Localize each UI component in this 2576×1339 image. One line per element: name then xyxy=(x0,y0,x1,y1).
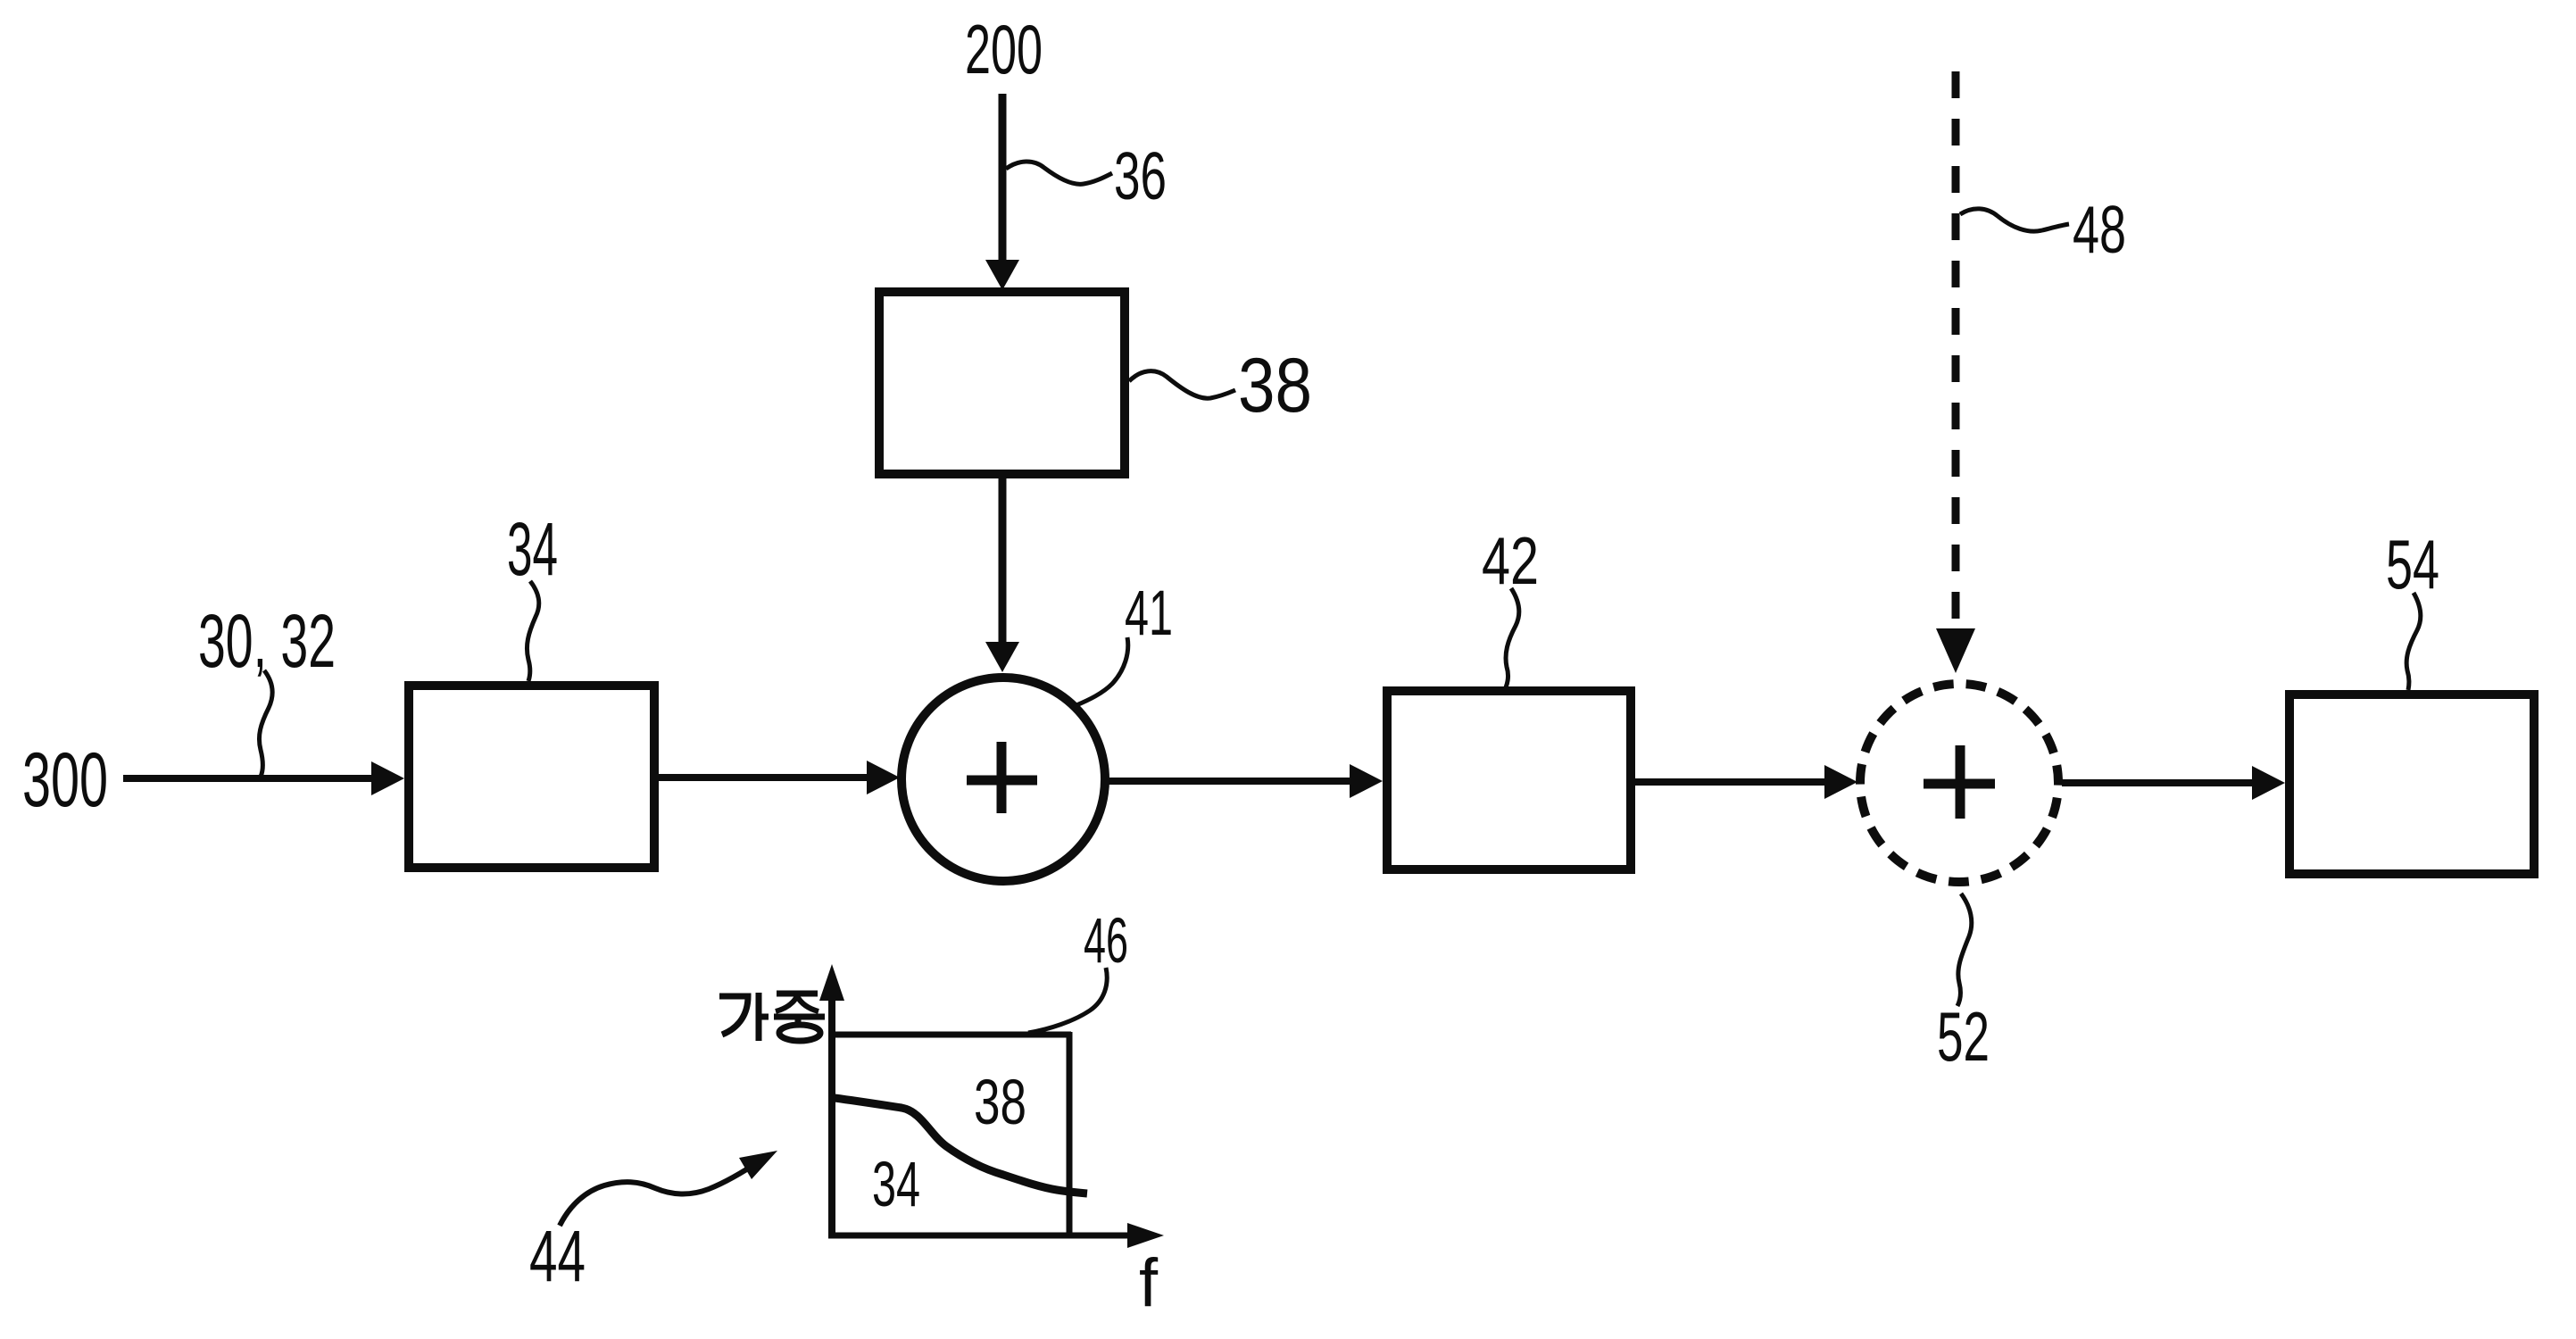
wire block 38 to adder 41 xyxy=(999,478,1007,644)
arrowhead into block 54 xyxy=(2252,766,2285,800)
svg-text:48: 48 xyxy=(2073,192,2126,267)
wire adder 52 to block 54 xyxy=(2062,779,2256,786)
dashed wire 48 xyxy=(1952,71,1960,627)
arrowhead into block 42 xyxy=(1350,764,1383,798)
arrowhead into block 34 xyxy=(371,761,404,795)
leader 46 xyxy=(1028,968,1107,1033)
svg-text:300: 300 xyxy=(22,737,108,823)
graph x-axis xyxy=(828,1233,1130,1239)
leader arrow 44 xyxy=(560,1160,760,1226)
svg-text:200: 200 xyxy=(965,10,1043,88)
wire block 34 to adder 41 xyxy=(659,774,871,781)
arrowhead of leader 44 xyxy=(739,1151,777,1179)
wire input 300 to block 34 xyxy=(123,775,375,782)
graph weighting curve xyxy=(835,1098,1087,1193)
svg-text:41: 41 xyxy=(1125,578,1173,649)
svg-text:f: f xyxy=(1139,1245,1159,1321)
block 38 xyxy=(879,292,1125,474)
block 42 xyxy=(1387,691,1631,869)
svg-text:52: 52 xyxy=(1937,997,1990,1076)
leader 34 xyxy=(527,581,538,681)
arrowhead of dashed wire into adder 52 xyxy=(1936,628,1975,673)
block 34 xyxy=(409,686,654,868)
plus sign of adder 41 xyxy=(967,776,1037,786)
svg-text:54: 54 xyxy=(2386,525,2439,603)
wire 200 to block 38 xyxy=(999,94,1007,262)
plus sign of adder 52 xyxy=(1924,779,1995,789)
wire block 42 to adder 52 xyxy=(1635,778,1828,786)
svg-text:38: 38 xyxy=(1238,343,1312,428)
svg-text:34: 34 xyxy=(872,1150,920,1220)
leader 52 xyxy=(1957,894,1972,1006)
adder 52 dashed circle xyxy=(1860,684,2058,882)
leader 42 xyxy=(1506,588,1519,687)
svg-text:36: 36 xyxy=(1114,138,1167,213)
svg-text:44: 44 xyxy=(529,1216,586,1297)
leader 48 xyxy=(1960,209,2069,231)
wire adder 41 to block 42 xyxy=(1109,778,1353,785)
leader 30, 32 xyxy=(259,670,272,777)
graph y-axis arrowhead xyxy=(819,964,844,1001)
arrowhead into adder 52 xyxy=(1824,765,1857,799)
graph box top line 46 xyxy=(832,1032,1071,1038)
arrowhead into block 38 xyxy=(985,260,1019,290)
korean label weighting (jung) xyxy=(774,994,825,1041)
adder 41 circle xyxy=(902,678,1105,881)
svg-text:34: 34 xyxy=(507,507,558,591)
leader 41 xyxy=(1076,637,1128,705)
korean label weighting (ga) xyxy=(719,993,769,1041)
arrowhead into adder 41 xyxy=(985,642,1019,672)
graph y-axis xyxy=(828,998,835,1236)
arrowhead into adder 41 xyxy=(867,761,900,794)
leader 36 xyxy=(1006,162,1112,184)
graph box right line xyxy=(1067,1032,1073,1235)
graph x-axis arrowhead xyxy=(1127,1223,1164,1248)
svg-text:42: 42 xyxy=(1482,523,1539,598)
svg-text:46: 46 xyxy=(1084,906,1128,977)
leader 38 xyxy=(1129,371,1235,399)
leader 54 xyxy=(2406,593,2421,690)
block 54 xyxy=(2289,694,2534,874)
svg-text:38: 38 xyxy=(974,1068,1026,1138)
